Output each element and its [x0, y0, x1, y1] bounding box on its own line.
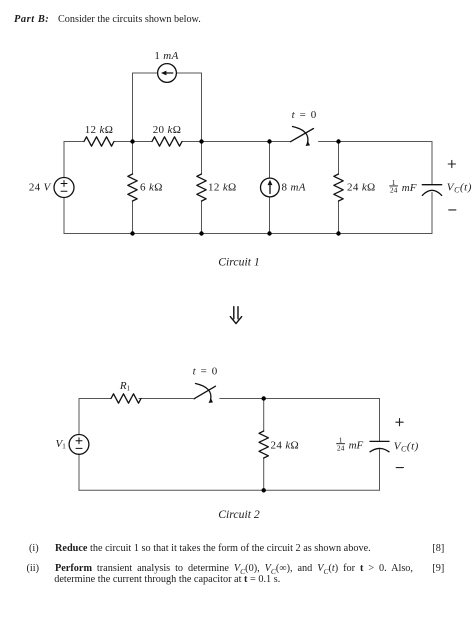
- node D bottom: [336, 231, 340, 235]
- svg-text:mF: mF: [349, 440, 364, 452]
- svg-text:Circuit 1: Circuit 1: [218, 256, 259, 269]
- wire: 12k branch: [201, 142, 203, 234]
- wire: circuit1 right rail (capacitor branch): [431, 142, 433, 234]
- svg-text:20 kΩ: 20 kΩ: [153, 124, 182, 136]
- svg-text:8 mA: 8 mA: [282, 182, 306, 194]
- svg-text:R1: R1: [119, 380, 131, 393]
- svg-text:1 mA: 1 mA: [154, 50, 178, 62]
- svg-text:24: 24: [337, 443, 345, 452]
- current source I2 8 mA: [261, 178, 280, 197]
- wire: 1 mA loop: [133, 73, 202, 142]
- resistor 20 kOhm (top horizontal): [152, 137, 182, 146]
- svg-text:VC(t): VC(t): [447, 182, 472, 195]
- question (ii) line 2: [54, 574, 280, 585]
- capacitor C 1/24 mF (circuit 2): [370, 441, 389, 451]
- wire: circuit2 top rail: [79, 398, 380, 400]
- switch t=0 (circuit 1): [291, 127, 314, 147]
- wire: circuit1 bottom rail: [64, 233, 432, 235]
- label: 1/24 mF (circuit 2): [337, 436, 364, 453]
- node D top: [336, 139, 340, 143]
- resistor 24 kOhm (circuit 2): [259, 431, 268, 458]
- label: plus (circuit 1): [448, 160, 455, 167]
- heading: Part B: [14, 14, 49, 25]
- current source I1 1 mA: [158, 64, 177, 83]
- resistor 6 kOhm (vertical): [128, 174, 137, 201]
- node dots circuit 1: [130, 139, 340, 235]
- heading: Consider the circuits shown below.: [58, 14, 201, 25]
- voltage source V1: [69, 435, 89, 455]
- resistor 24 kOhm (vertical, circuit 1): [334, 174, 343, 201]
- node E bottom: [262, 488, 266, 492]
- svg-text:12 kΩ: 12 kΩ: [85, 124, 114, 136]
- node A bottom: [130, 231, 134, 235]
- node B top: [199, 139, 203, 143]
- capacitor C1 1/24 mF: [422, 185, 441, 196]
- svg-text:t = 0: t = 0: [292, 109, 318, 121]
- label: minus (circuit 1): [449, 209, 456, 211]
- label: plus (circuit 2): [396, 419, 403, 426]
- voltage source 24 V: [54, 178, 74, 198]
- wire: circuit2 right rail (capacitor branch): [379, 399, 381, 491]
- svg-text:V1: V1: [56, 438, 67, 451]
- svg-text:24: 24: [390, 186, 398, 195]
- node C bottom: [267, 231, 271, 235]
- wire: 24k branch: [338, 142, 340, 234]
- switch t=0 (circuit 2): [194, 384, 216, 404]
- svg-text:mF: mF: [402, 182, 417, 194]
- svg-text:t = 0: t = 0: [193, 366, 219, 378]
- svg-text:24 kΩ: 24 kΩ: [347, 182, 376, 194]
- svg-text:24 V: 24 V: [29, 181, 52, 193]
- node C top: [267, 139, 271, 143]
- wire: circuit1 left rail: [63, 142, 65, 234]
- question (ii) line 1: [27, 563, 40, 574]
- node dots circuit 2: [262, 396, 266, 492]
- resistor 12 kOhm (vertical): [197, 174, 206, 201]
- wire: 8 mA branch: [269, 142, 271, 234]
- svg-text:VC(t): VC(t): [394, 440, 419, 453]
- double down arrow: [230, 307, 241, 324]
- label: minus (circuit 2): [396, 467, 403, 469]
- question (i): [29, 543, 39, 554]
- resistor R1: [111, 394, 141, 403]
- wire: circuit2 left rail: [78, 399, 80, 491]
- svg-text:12 kΩ: 12 kΩ: [208, 181, 237, 193]
- svg-text:Circuit 2: Circuit 2: [218, 508, 260, 521]
- node A top: [130, 139, 134, 143]
- wire: 24k branch circuit 2: [263, 399, 265, 491]
- label: 1/24 mF (circuit 1): [390, 178, 417, 195]
- resistor 12 kOhm (top-left horizontal): [84, 137, 114, 146]
- svg-text:24 kΩ: 24 kΩ: [271, 439, 300, 451]
- node E top: [262, 396, 266, 400]
- node B bottom: [199, 231, 203, 235]
- wire: 6k branch: [132, 142, 134, 234]
- svg-text:6 kΩ: 6 kΩ: [140, 181, 163, 193]
- wire: circuit1 top rail segments: [64, 141, 432, 143]
- wire: circuit2 bottom rail: [79, 489, 380, 491]
